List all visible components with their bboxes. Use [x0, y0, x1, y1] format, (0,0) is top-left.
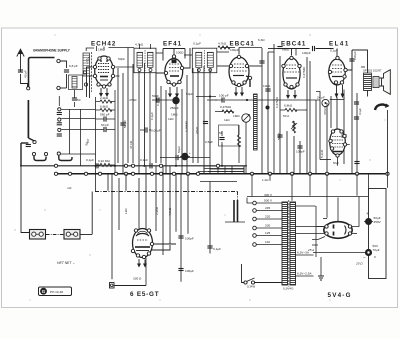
svg-text:50: 50 — [77, 98, 81, 102]
svg-text:110: 110 — [265, 240, 270, 244]
svg-text:1MΩ: 1MΩ — [171, 113, 178, 117]
svg-text:220: 220 — [265, 215, 270, 219]
svg-text:125: 125 — [265, 231, 270, 235]
svg-text:1kΩ: 1kΩ — [224, 118, 230, 122]
svg-text:2,2kΩ: 2,2kΩ — [155, 206, 159, 215]
svg-text:470Ω: 470Ω — [129, 98, 137, 102]
svg-text:0,1µF: 0,1µF — [140, 158, 148, 162]
svg-text:6,8kΩ: 6,8kΩ — [284, 104, 293, 108]
svg-text:70µF: 70µF — [373, 248, 380, 252]
svg-text:6,3V~2,5A: 6,3V~2,5A — [297, 272, 312, 276]
svg-text:0,5µF: 0,5µF — [205, 140, 213, 144]
svg-text:+7A: +7A — [87, 55, 91, 62]
svg-text:EF41: EF41 — [163, 41, 182, 48]
svg-text:2,2kΩ: 2,2kΩ — [100, 96, 109, 100]
svg-text:0,1µF: 0,1µF — [150, 112, 154, 120]
svg-text:100 pF: 100 pF — [219, 94, 229, 98]
svg-text:100pF: 100pF — [353, 51, 357, 60]
svg-text:−: − — [363, 255, 366, 260]
svg-text:47kΩ: 47kΩ — [195, 126, 199, 134]
svg-text:0,3V4G: 0,3V4G — [283, 287, 294, 291]
svg-text:47 kΩ: 47 kΩ — [129, 140, 133, 149]
svg-text:SP 325 102/97: SP 325 102/97 — [363, 69, 382, 73]
svg-text:6,3Ω: 6,3Ω — [258, 38, 265, 42]
svg-text:250pF: 250pF — [170, 106, 179, 110]
svg-text:0,1µF: 0,1µF — [213, 247, 221, 251]
svg-text:6,8kΩ: 6,8kΩ — [100, 105, 109, 109]
svg-text:ECH42: ECH42 — [91, 41, 116, 48]
svg-text:5,1kΩ: 5,1kΩ — [320, 149, 324, 158]
svg-text:50 µF: 50 µF — [123, 120, 127, 128]
svg-text:50 A: 50 A — [283, 114, 290, 118]
svg-text:0,34W: 0,34W — [247, 285, 255, 289]
svg-text:350V: 350V — [374, 220, 382, 224]
svg-text:24 pF: 24 pF — [317, 96, 325, 100]
svg-text:4,7kΩ: 4,7kΩ — [218, 42, 227, 46]
svg-text:HET NET ←: HET NET ← — [57, 261, 76, 265]
svg-text:m0: m0 — [67, 186, 72, 190]
svg-text:50 pF: 50 pF — [101, 123, 109, 127]
svg-text:100Ω: 100Ω — [176, 51, 184, 55]
svg-text:1MΩ: 1MΩ — [233, 114, 240, 118]
svg-text:EBC41: EBC41 — [230, 41, 255, 48]
svg-text:0: 0 — [374, 255, 376, 259]
svg-text:0,27MΩ: 0,27MΩ — [220, 105, 232, 109]
svg-text:50pF: 50pF — [118, 57, 125, 61]
svg-text:10kΩ: 10kΩ — [263, 84, 271, 88]
svg-text:EL41: EL41 — [329, 41, 350, 48]
svg-text:6 E5-GT: 6 E5-GT — [130, 291, 159, 298]
svg-text:470kΩ: 470kΩ — [323, 105, 327, 115]
svg-text:500 V: 500 V — [264, 199, 273, 203]
svg-text:560 pF: 560 pF — [100, 113, 110, 117]
svg-text:43 pF: 43 pF — [24, 70, 28, 78]
svg-text:1kΩ: 1kΩ — [124, 208, 128, 214]
svg-text:200: 200 — [265, 224, 270, 228]
svg-text:4,7kΩ: 4,7kΩ — [168, 207, 172, 216]
svg-text:0,1µF: 0,1µF — [358, 108, 362, 115]
svg-text:1 kΩ: 1 kΩ — [262, 178, 269, 182]
svg-text:330 Ω: 330 Ω — [133, 277, 142, 281]
svg-text:0,1µF: 0,1µF — [193, 42, 201, 46]
svg-text:1kΩ: 1kΩ — [168, 117, 174, 121]
svg-text:50µF: 50µF — [333, 161, 339, 165]
svg-text:245: 245 — [265, 206, 270, 210]
svg-text:0,02µF: 0,02µF — [151, 129, 161, 133]
svg-text:50pF: 50pF — [152, 94, 159, 98]
svg-text:0,27MΩ: 0,27MΩ — [302, 66, 306, 78]
svg-text:50µF: 50µF — [177, 146, 181, 153]
svg-text:25 Ω: 25 Ω — [355, 262, 363, 266]
svg-text:50kΩ: 50kΩ — [277, 132, 281, 140]
svg-text:25 A: 25 A — [307, 248, 314, 252]
svg-text:GRAMOPHONE SUPPLY: GRAMOPHONE SUPPLY — [33, 49, 71, 53]
svg-text:6,8 pF: 6,8 pF — [69, 64, 78, 68]
svg-text:50µF: 50µF — [186, 92, 193, 96]
svg-text:+: + — [189, 151, 191, 155]
svg-text:100pF: 100pF — [230, 48, 239, 52]
svg-text:100pF: 100pF — [185, 237, 194, 241]
svg-text:0,1µF: 0,1µF — [86, 158, 94, 162]
svg-text:100µF: 100µF — [185, 269, 194, 273]
svg-text:0,15MΩ: 0,15MΩ — [185, 120, 189, 132]
svg-text:100pF: 100pF — [302, 51, 311, 55]
svg-text:0,22 MΩ: 0,22 MΩ — [98, 159, 110, 163]
svg-text:100pF: 100pF — [296, 150, 305, 154]
svg-text:300 V: 300 V — [264, 193, 273, 197]
svg-text:0,27MΩ: 0,27MΩ — [275, 96, 279, 108]
svg-text:5V4-G: 5V4-G — [328, 292, 352, 299]
svg-text:G: G — [42, 289, 46, 294]
svg-text:PH 10-48: PH 10-48 — [50, 290, 63, 294]
svg-text:+: + — [366, 211, 369, 216]
svg-text:EBC41: EBC41 — [281, 41, 306, 48]
